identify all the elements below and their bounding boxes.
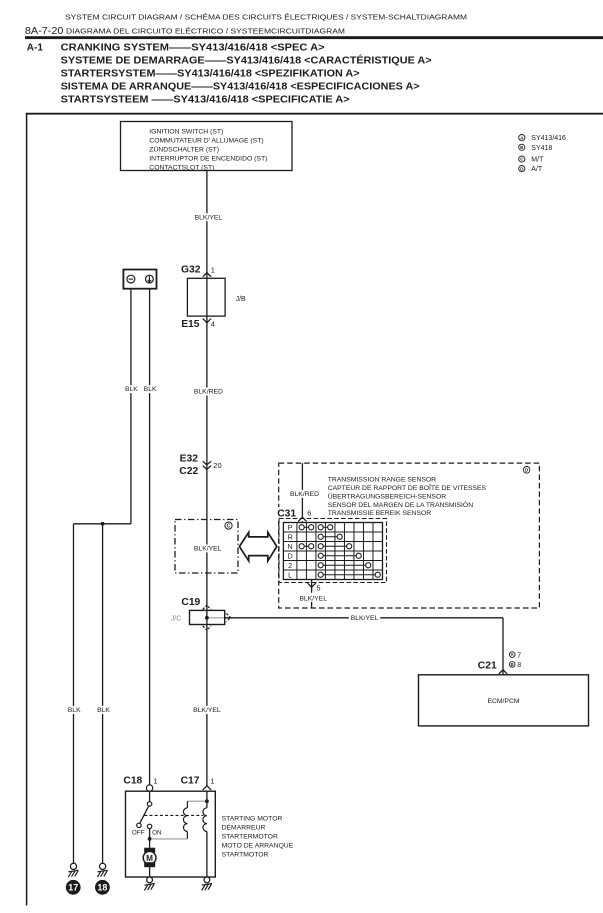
svg-text:DIAGRAMA DEL CIRCUITO ELÉCTRIC: DIAGRAMA DEL CIRCUITO ELÉCTRICO / SYSTEE… — [66, 27, 345, 36]
svg-text:BLK/YEL: BLK/YEL — [195, 214, 223, 221]
svg-text:BLK: BLK — [125, 386, 138, 393]
svg-text:C19: C19 — [181, 597, 200, 608]
svg-text:ZÜNDSCHALTER (ST): ZÜNDSCHALTER (ST) — [149, 146, 219, 154]
svg-text:J/B: J/B — [236, 296, 246, 303]
svg-text:C22: C22 — [179, 466, 198, 477]
svg-text:C21: C21 — [478, 660, 497, 671]
svg-text:J/C: J/C — [171, 616, 182, 623]
svg-text:P: P — [288, 523, 293, 532]
svg-text:TRANSMISSION RANGE SENSOR: TRANSMISSION RANGE SENSOR — [328, 477, 436, 484]
svg-text:ON: ON — [152, 829, 162, 836]
svg-text:BLK: BLK — [97, 707, 110, 714]
svg-text:C17: C17 — [181, 776, 200, 787]
svg-text:STARTING MOTOR: STARTING MOTOR — [222, 815, 283, 822]
svg-text:BLK/RED: BLK/RED — [290, 491, 319, 498]
svg-text:1: 1 — [210, 776, 214, 785]
svg-text:ECM/PCM: ECM/PCM — [487, 698, 519, 705]
svg-text:STARTMOTOR: STARTMOTOR — [222, 851, 269, 858]
svg-text:SENSOR DEL MARGEN DE LA TRANSM: SENSOR DEL MARGEN DE LA TRANSMISIÓN — [328, 500, 474, 509]
svg-text:BLK/YEL: BLK/YEL — [194, 545, 222, 552]
svg-text:BLK/YEL: BLK/YEL — [299, 596, 327, 603]
svg-text:ÜBERTRAGUNGSBEREICH-SENSOR: ÜBERTRAGUNGSBEREICH-SENSOR — [328, 492, 447, 500]
svg-text:C: C — [227, 523, 231, 529]
svg-text:SYSTEME DE DEMARRAGE——SY413/41: SYSTEME DE DEMARRAGE——SY413/416/418 <CAR… — [61, 53, 432, 66]
svg-text:17: 17 — [68, 883, 78, 893]
svg-text:8: 8 — [517, 662, 521, 669]
svg-text:M/T: M/T — [531, 157, 544, 164]
svg-text:STARTERSYSTEM——SY413/416/418 <: STARTERSYSTEM——SY413/416/418 <SPEZIFIKAT… — [61, 69, 360, 80]
svg-text:INTERRUPTOR DE ENCENDIDO (ST): INTERRUPTOR DE ENCENDIDO (ST) — [149, 155, 267, 162]
svg-text:SY418: SY418 — [531, 145, 552, 152]
svg-text:SISTEMA DE ARRANQUE——SY413/416: SISTEMA DE ARRANQUE——SY413/416/418 <ESPE… — [61, 82, 420, 93]
svg-text:CRANKING SYSTEM——SY413/416/418: CRANKING SYSTEM——SY413/416/418 <SPEC A> — [61, 42, 325, 53]
svg-text:A: A — [511, 652, 514, 657]
svg-text:N: N — [288, 542, 293, 551]
svg-text:BLK/YEL: BLK/YEL — [193, 707, 221, 714]
svg-text:CONTACTSLOT (ST): CONTACTSLOT (ST) — [149, 164, 214, 171]
svg-text:5: 5 — [316, 583, 320, 592]
svg-text:SY413/416: SY413/416 — [531, 135, 566, 142]
svg-text:7: 7 — [517, 652, 521, 659]
svg-text:COMMUTATEUR D' ALLUMAGE (ST): COMMUTATEUR D' ALLUMAGE (ST) — [149, 138, 263, 145]
svg-text:TRANSMISSIE BEREIK SENSOR: TRANSMISSIE BEREIK SENSOR — [328, 510, 432, 517]
svg-text:MOTO DE ARRANQUE: MOTO DE ARRANQUE — [222, 842, 294, 849]
svg-text:E15: E15 — [181, 319, 200, 330]
svg-text:G32: G32 — [181, 265, 201, 276]
svg-text:A-1: A-1 — [27, 42, 44, 53]
svg-text:8A-7-20: 8A-7-20 — [25, 26, 64, 37]
svg-text:18: 18 — [97, 883, 107, 893]
svg-text:6: 6 — [307, 508, 311, 517]
svg-text:BLK/RED: BLK/RED — [194, 389, 223, 396]
svg-text:BLK: BLK — [144, 386, 157, 393]
svg-text:C31: C31 — [277, 508, 296, 519]
svg-text:BLK/YEL: BLK/YEL — [351, 615, 379, 622]
svg-text:IGNITION SWITCH (ST): IGNITION SWITCH (ST) — [149, 129, 223, 136]
svg-text:R: R — [288, 532, 293, 541]
svg-text:B: B — [511, 662, 514, 667]
svg-text:CAPTEUR DE RAPPORT DE BOÎTE DE: CAPTEUR DE RAPPORT DE BOÎTE DE VITESSES — [328, 483, 487, 492]
svg-text:4: 4 — [211, 319, 215, 328]
svg-text:E32: E32 — [180, 454, 199, 465]
svg-text:D: D — [288, 551, 293, 560]
svg-text:A/T: A/T — [531, 166, 543, 173]
svg-text:STARTERMOTOR: STARTERMOTOR — [222, 833, 278, 840]
svg-text:M: M — [146, 854, 153, 863]
svg-text:DÉMARREUR: DÉMARREUR — [222, 822, 266, 831]
svg-text:BLK: BLK — [68, 707, 81, 714]
svg-text:1: 1 — [153, 776, 157, 785]
svg-text:C18: C18 — [123, 776, 142, 787]
svg-text:2: 2 — [288, 561, 292, 570]
svg-text:20: 20 — [213, 461, 221, 470]
svg-text:OFF: OFF — [132, 829, 145, 836]
svg-text:STARTSYSTEEM ——SY413/416/418 <: STARTSYSTEEM ——SY413/416/418 <SPECIFICAT… — [61, 95, 350, 106]
svg-text:L: L — [288, 570, 292, 579]
svg-text:SYSTEM CIRCUIT DIAGRAM / SCHÉM: SYSTEM CIRCUIT DIAGRAM / SCHÉMA DES CIRC… — [65, 12, 467, 21]
svg-text:1: 1 — [211, 265, 215, 274]
